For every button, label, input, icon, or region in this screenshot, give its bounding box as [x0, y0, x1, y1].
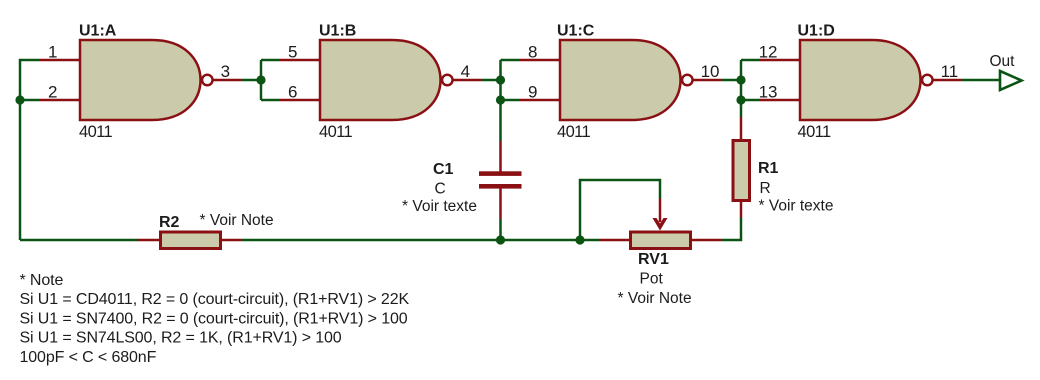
NAND gate U1:A	[80, 40, 213, 120]
pin 2 (bottom input) of U1:A	[40, 83, 80, 102]
wire: U1:C output to U1:D inputs and down to R1	[722, 60, 760, 117]
wire: bottom rail to RV1 left lead	[580, 239, 599, 242]
svg-text:100pF < C < 680nF: 100pF < C < 680nF	[20, 349, 157, 366]
svg-text:U1:B: U1:B	[319, 23, 356, 40]
svg-text:RV1: RV1	[638, 251, 669, 268]
svg-text:C1: C1	[433, 161, 454, 178]
svg-text:C: C	[435, 181, 446, 198]
pin 8 (top input) of U1:C	[520, 43, 560, 62]
NAND gate U1:B	[320, 40, 453, 120]
pin 11 (output) of U1:D	[932, 62, 962, 81]
note text block	[20, 272, 410, 366]
resistor R1	[733, 117, 750, 218]
svg-text:U1:A: U1:A	[79, 23, 117, 40]
junction at node (741,80)	[736, 75, 745, 84]
svg-text:4011: 4011	[319, 123, 353, 141]
svg-text:9: 9	[528, 83, 537, 102]
svg-text:11: 11	[941, 62, 959, 81]
wire: bottom feedback rail left segment (to R2)	[20, 239, 138, 242]
svg-text:* Note: * Note	[20, 272, 64, 289]
wire: U1:B output to U1:C inputs and down to C1	[482, 60, 520, 141]
junction at node (501,80)	[496, 75, 505, 84]
wire: RV1 wiper feedback loop	[580, 180, 660, 240]
potentiometer RV1	[599, 199, 721, 249]
svg-text:U1:C: U1:C	[557, 23, 595, 40]
svg-text:R: R	[760, 180, 771, 197]
wire: U1:A input loop (pins 1-2) and left rail down to bottom	[20, 60, 40, 240]
svg-text:U1:D: U1:D	[798, 23, 835, 40]
pin 5 (top input) of U1:B	[280, 43, 320, 62]
pin 1 (top input) of U1:A	[40, 43, 80, 62]
wire: C1 bottom lead to rail	[499, 219, 502, 240]
svg-text:Si U1 = CD4011, R2 = 0 (court-: Si U1 = CD4011, R2 = 0 (court-circuit), …	[20, 291, 410, 308]
junction at node (20,100)	[15, 95, 24, 104]
wire: bottom rail C1 to wiper takeoff	[500, 239, 580, 242]
svg-text:8: 8	[528, 43, 537, 62]
resistor R2	[138, 232, 242, 249]
svg-text:* Voir Note: * Voir Note	[618, 290, 692, 307]
wire: U1:A output to U1:B inputs	[242, 60, 280, 100]
junction at node (261,80)	[256, 75, 265, 84]
NAND gate U1:C	[560, 40, 693, 120]
svg-text:* Voir Note: * Voir Note	[200, 212, 274, 229]
svg-text:3: 3	[221, 62, 230, 81]
pin 12 (top input) of U1:D	[759, 43, 800, 62]
output terminal Out	[1000, 71, 1022, 90]
svg-text:2: 2	[48, 83, 57, 102]
svg-text:10: 10	[701, 62, 720, 81]
svg-text:4011: 4011	[557, 123, 591, 141]
svg-text:4011: 4011	[798, 123, 832, 141]
svg-text:* Voir texte: * Voir texte	[759, 198, 834, 215]
svg-text:* Voir texte: * Voir texte	[402, 198, 477, 215]
pin 4 (output) of U1:B	[452, 62, 482, 81]
pin 10 (output) of U1:C	[692, 62, 722, 81]
junction at node (500,240) C1 bottom	[496, 235, 505, 244]
wire: RV1 right lead to R1 bottom	[721, 218, 741, 241]
NAND gate U1:D	[800, 40, 933, 120]
wire: U1:D output to Out terminal	[962, 79, 1000, 82]
svg-text:R1: R1	[758, 160, 779, 177]
svg-text:4011: 4011	[79, 123, 113, 141]
junction at node (580,240) wiper branch	[575, 235, 584, 244]
svg-text:13: 13	[759, 83, 778, 102]
svg-text:R2: R2	[159, 214, 180, 231]
svg-text:5: 5	[288, 43, 297, 62]
svg-text:Si U1 = SN74LS00, R2 = 1K, (R1: Si U1 = SN74LS00, R2 = 1K, (R1+RV1) > 10…	[20, 330, 342, 347]
pin 6 (bottom input) of U1:B	[280, 83, 320, 102]
junction at node (501,100)	[496, 95, 505, 104]
svg-text:1: 1	[48, 43, 57, 62]
junction at node (741,100)	[736, 95, 745, 104]
svg-text:Pot: Pot	[640, 271, 664, 288]
svg-text:Out: Out	[990, 53, 1016, 70]
svg-text:4: 4	[461, 62, 470, 81]
svg-text:Si U1 = SN7400, R2 = 0 (court-: Si U1 = SN7400, R2 = 0 (court-circuit), …	[20, 310, 408, 327]
svg-text:12: 12	[759, 43, 778, 62]
pin 9 (bottom input) of U1:C	[520, 83, 560, 102]
svg-text:6: 6	[288, 83, 297, 102]
pin 3 (output) of U1:A	[212, 62, 242, 81]
wire: bottom rail R2 to C1 junction	[242, 239, 500, 242]
capacitor C1	[479, 141, 522, 219]
pin 13 (bottom input) of U1:D	[759, 83, 800, 102]
